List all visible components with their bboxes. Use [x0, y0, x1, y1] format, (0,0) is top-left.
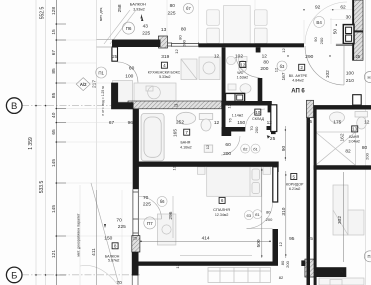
svg-text:СПАЛНЯ: СПАЛНЯ [213, 207, 230, 212]
svg-text:4.84м2: 4.84м2 [292, 78, 303, 82]
bathroom 1 sink [176, 112, 195, 124]
svg-text:200: 200 [266, 217, 273, 222]
svg-text:90: 90 [313, 37, 318, 42]
circle b3 hall [277, 61, 287, 71]
svg-text:12: 12 [174, 49, 179, 54]
window top (kitchen) thin double line [168, 43, 199, 47]
balcony 2 parapet diagonal [91, 183, 119, 285]
svg-text:100: 100 [125, 74, 133, 80]
washing machine boxes [226, 93, 245, 101]
svg-text:Б: Б [11, 270, 17, 281]
svg-text:12.34м2: 12.34м2 [215, 213, 228, 217]
circle P1 [96, 67, 107, 78]
svg-text:500: 500 [256, 239, 262, 247]
wall bedroom east lower [273, 229, 279, 266]
hatched band kitchen-bath wall [128, 101, 222, 109]
svg-text:БАНЯ: БАНЯ [180, 140, 190, 144]
shaft box (stove symbol) [343, 25, 354, 44]
svg-text:82: 82 [345, 149, 351, 155]
svg-text:43: 43 [143, 24, 149, 30]
svg-text:25: 25 [112, 54, 117, 59]
svg-text:102: 102 [235, 53, 243, 59]
svg-text:60: 60 [225, 142, 231, 148]
svg-text:25: 25 [308, 236, 314, 242]
svg-text:210: 210 [346, 78, 354, 84]
svg-text:30: 30 [346, 15, 352, 21]
room box 2 hall [299, 64, 305, 70]
svg-text:12: 12 [274, 67, 279, 72]
wall kitchen-WC [222, 47, 226, 136]
svg-text:40: 40 [51, 112, 57, 118]
svg-text:1.63м2: 1.63м2 [237, 76, 248, 80]
svg-text:б3: б3 [247, 213, 252, 218]
door arc terrace [305, 2, 347, 44]
svg-text:25: 25 [174, 104, 178, 108]
protrusion above bath2 wall (outline) [353, 95, 362, 105]
svg-text:225: 225 [167, 11, 175, 17]
svg-text:150: 150 [237, 120, 245, 126]
svg-text:б2: б2 [243, 146, 248, 151]
svg-text:90: 90 [281, 146, 287, 152]
svg-text:12: 12 [364, 120, 370, 126]
balcony 2 ground arc [80, 265, 118, 285]
balcony railing diagonals top-left [104, 10, 136, 44]
hatched column top right [353, 0, 364, 60]
corridor labels [291, 174, 297, 180]
kitchen counter and appliances [113, 57, 221, 102]
axis circle В [6, 98, 22, 114]
svg-text:15: 15 [51, 29, 57, 35]
wall bedroom north [139, 162, 279, 167]
circle V4 [314, 16, 325, 27]
hatched corridor block [307, 100, 314, 117]
room 3 wardrobe [333, 185, 364, 235]
svg-text:296: 296 [168, 211, 174, 219]
door arc entrance [305, 46, 344, 85]
svg-text:175: 175 [333, 120, 341, 126]
svg-text:5.67м2: 5.67м2 [108, 258, 119, 262]
wall jamb WC door [256, 47, 261, 52]
svg-text:85: 85 [51, 92, 57, 98]
jamb protrusion below wall B [256, 47, 261, 52]
svg-text:85: 85 [51, 68, 57, 74]
axis circle Б [6, 267, 22, 283]
svg-text:5.33м2: 5.33м2 [159, 75, 170, 79]
wall corner bedroom NE [274, 162, 279, 173]
svg-text:В: В [11, 101, 17, 112]
bathroom 1 toilet [199, 114, 212, 153]
svg-text:70: 70 [116, 217, 122, 223]
door arc bedroom [247, 203, 273, 229]
wall bottom right [315, 267, 346, 277]
circle P6 [123, 22, 135, 34]
shower cabin bath 2 [316, 132, 356, 165]
svg-text:12: 12 [281, 48, 286, 53]
walls storage room [226, 101, 272, 106]
svg-text:76: 76 [227, 118, 232, 123]
wall kitchen north [112, 40, 161, 48]
svg-text:67: 67 [51, 50, 57, 56]
svg-text:АП 6: АП 6 [291, 89, 305, 95]
svg-text:25: 25 [133, 236, 137, 240]
svg-text:н от г. под = 1.25 м: н от г. под = 1.25 м [101, 86, 105, 116]
svg-text:200: 200 [182, 39, 187, 46]
lower window band below bedroom [208, 268, 271, 283]
svg-text:12: 12 [262, 53, 268, 59]
svg-text:б6: б6 [160, 199, 165, 204]
window bedroom west (balcony) [133, 189, 138, 235]
wall north main [199, 43, 305, 47]
svg-text:25: 25 [307, 119, 312, 124]
svg-text:8: 8 [114, 244, 117, 249]
terrace table [207, 6, 267, 44]
bedroom bed [157, 167, 270, 245]
svg-text:1 359: 1 359 [28, 137, 34, 150]
svg-text:96: 96 [128, 120, 134, 126]
door arc bath1 [221, 136, 240, 155]
circle b7 top [183, 3, 193, 13]
bedroom labels [219, 197, 225, 203]
wall WC east [258, 78, 263, 105]
svg-text:225: 225 [118, 224, 126, 230]
svg-text:225: 225 [143, 202, 151, 208]
svg-text:65: 65 [51, 129, 57, 135]
svg-text:80: 80 [362, 145, 368, 151]
svg-text:60: 60 [129, 66, 135, 72]
balcony floor edge lines [97, 39, 113, 41]
svg-text:6.21м2: 6.21м2 [289, 187, 300, 191]
svg-text:302: 302 [337, 216, 343, 224]
door arc WC [236, 57, 260, 77]
axis Б dash-dot line [22, 274, 140, 276]
svg-text:533.5: 533.5 [39, 181, 45, 194]
circle NV right edge [364, 72, 371, 83]
svg-text:12: 12 [175, 263, 180, 268]
svg-text:145: 145 [51, 205, 57, 213]
svg-text:12: 12 [214, 120, 220, 126]
wall stub bottom right [301, 260, 305, 266]
svg-text:67: 67 [109, 120, 115, 126]
tick dots top right [287, 9, 337, 57]
wall bedroom south [139, 262, 279, 266]
svg-text:3.93м2: 3.93м2 [133, 8, 144, 12]
hatched bottom-right pier [305, 259, 315, 277]
svg-text:12: 12 [171, 165, 176, 170]
hatched wall block top window jamb [159, 36, 168, 48]
svg-text:13: 13 [161, 27, 167, 33]
terrace chairs [207, 10, 220, 25]
door arc storage [246, 109, 266, 129]
svg-text:П7: П7 [147, 221, 153, 226]
svg-text:12: 12 [205, 144, 210, 149]
svg-text:4.16м2: 4.16м2 [180, 145, 191, 149]
door arc kitchen [118, 62, 139, 83]
svg-text:552.5: 552.5 [40, 7, 46, 20]
room 3 lower furniture [319, 278, 364, 285]
svg-text:92: 92 [315, 4, 321, 10]
svg-text:б7: б7 [186, 6, 191, 11]
wall bath west / bedroom west [133, 109, 139, 189]
svg-text:162: 162 [339, 133, 345, 141]
svg-text:150: 150 [104, 236, 112, 242]
svg-text:12: 12 [214, 53, 220, 59]
svg-text:82: 82 [279, 275, 284, 280]
svg-text:КОРИДОР: КОРИДОР [286, 183, 304, 187]
svg-text:200: 200 [254, 126, 259, 133]
svg-text:100: 100 [346, 71, 354, 77]
svg-text:200: 200 [319, 37, 324, 44]
svg-text:225: 225 [142, 31, 150, 37]
svg-text:200: 200 [260, 66, 268, 72]
wall west upper arm (outline with 25) [112, 47, 118, 61]
walls (solid) [111, 0, 371, 285]
room box 4 kitchen [161, 62, 167, 68]
window sill right of entrance [336, 44, 353, 46]
svg-text:2: 2 [300, 65, 303, 70]
svg-text:12: 12 [267, 120, 273, 126]
svg-text:62: 62 [340, 4, 346, 10]
svg-text:А/2: А/2 [80, 82, 87, 87]
svg-text:б1: б1 [255, 212, 260, 217]
svg-text:мет. декоративен парапет: мет. декоративен парапет [77, 213, 81, 256]
svg-text:П6: П6 [126, 26, 132, 31]
svg-text:121: 121 [51, 250, 57, 258]
svg-text:80: 80 [178, 35, 183, 40]
arrow mark [141, 17, 143, 21]
hatched balcony pier [132, 236, 140, 252]
wall bath2 north [314, 105, 371, 109]
svg-text:13: 13 [352, 127, 358, 132]
axis B dash-dot line [22, 105, 152, 107]
svg-text:12: 12 [278, 241, 283, 246]
svg-text:50: 50 [332, 29, 338, 35]
thin line below balcony pier [132, 276, 138, 285]
wall corridor west [307, 118, 311, 285]
pillar storage exit (outline) [271, 105, 277, 132]
svg-text:319: 319 [161, 54, 169, 60]
wall balcony pier lower [132, 252, 139, 276]
svg-text:1.14м2: 1.14м2 [232, 113, 243, 117]
dim line bedroom 414 [97, 126, 344, 285]
svg-text:80: 80 [181, 26, 187, 32]
svg-text:12: 12 [226, 103, 231, 108]
svg-text:10: 10 [255, 110, 261, 115]
bedroom inner wall line [180, 254, 252, 256]
svg-text:128: 128 [51, 7, 57, 15]
svg-text:70: 70 [143, 195, 149, 201]
wall edge of hatch column [353, 0, 355, 60]
wall west mid [111, 83, 133, 110]
svg-text:КУХНЕНСКИ БОКС: КУХНЕНСКИ БОКС [148, 71, 181, 75]
svg-text:200: 200 [223, 151, 231, 157]
svg-text:25: 25 [270, 136, 276, 142]
svg-text:80: 80 [266, 210, 271, 215]
svg-text:102: 102 [325, 70, 331, 78]
bath 2 toilet [355, 112, 368, 130]
bedroom dresser and stool [157, 214, 176, 245]
svg-text:165: 165 [172, 129, 178, 137]
svg-text:WC: WC [237, 71, 243, 75]
left dimension line with ticks [56, 0, 66, 285]
svg-text:мет. дек,: мет. дек, [99, 7, 103, 21]
svg-text:25: 25 [355, 54, 360, 59]
left dimension numbers (rotated) [51, 7, 57, 258]
svg-text:70: 70 [116, 280, 122, 285]
svg-text:200: 200 [364, 152, 369, 159]
svg-text:95: 95 [289, 236, 295, 242]
svg-text:5: 5 [293, 174, 296, 179]
svg-text:3.04м2: 3.04м2 [348, 139, 359, 143]
arrow down balcony [104, 224, 106, 228]
door arc balcony bedroom [139, 197, 162, 220]
svg-text:Н: Н [367, 75, 370, 80]
svg-text:258: 258 [117, 4, 123, 12]
svg-text:П: П [367, 254, 370, 259]
svg-text:б1: б1 [253, 146, 258, 151]
svg-text:БАЛКОН: БАЛКОН [130, 2, 146, 7]
svg-text:80: 80 [170, 3, 176, 9]
svg-text:12: 12 [240, 62, 246, 67]
svg-text:200: 200 [285, 260, 290, 267]
svg-text:4: 4 [163, 63, 166, 68]
bath 2 sink [330, 112, 345, 123]
svg-text:В4: В4 [316, 20, 322, 25]
svg-text:290: 290 [305, 54, 313, 60]
svg-text:310: 310 [281, 207, 287, 215]
svg-text:СКЛАД: СКЛАД [252, 117, 265, 121]
wall corridor east / bath2 west [314, 109, 317, 285]
WC fixtures [227, 56, 252, 93]
wall bedroom east upper (outline) [273, 167, 278, 202]
svg-text:80: 80 [263, 60, 269, 66]
svg-text:6: 6 [221, 198, 224, 203]
svg-text:411: 411 [91, 248, 97, 256]
svg-text:167: 167 [281, 72, 287, 80]
svg-text:б3: б3 [280, 64, 285, 69]
room box 12 WC [240, 62, 246, 68]
A/2 diamond [76, 78, 90, 91]
svg-text:25: 25 [339, 268, 344, 273]
svg-text:414: 414 [202, 236, 210, 242]
bathroom 1 bathtub [141, 114, 164, 161]
wall bath2 south [314, 165, 371, 169]
svg-text:145: 145 [51, 159, 57, 167]
svg-text:П1: П1 [98, 70, 104, 75]
svg-text:7: 7 [185, 130, 188, 135]
svg-text:252: 252 [176, 119, 184, 125]
svg-text:217: 217 [92, 80, 98, 88]
